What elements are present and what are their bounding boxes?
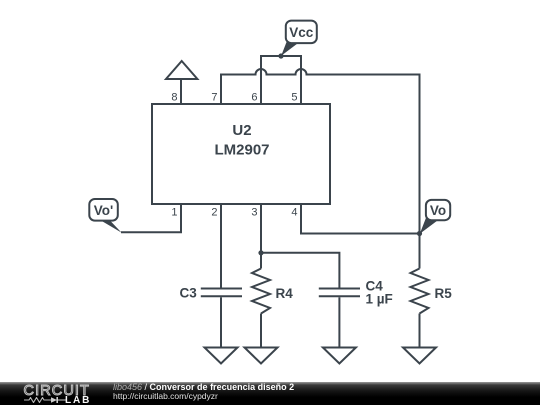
svg-text:R4: R4 — [276, 286, 294, 301]
wire R4 to ground — [260, 314, 262, 348]
CircuitLab logo word CIRCUIT — [24, 383, 91, 399]
footer url line — [113, 391, 218, 401]
node pin3/C4 junction dot — [258, 250, 263, 255]
ground (R4) — [245, 348, 278, 364]
wire pin 4 to Vo node — [301, 204, 420, 234]
wire C3 to ground — [220, 297, 222, 347]
svg-text:Vo': Vo' — [94, 203, 113, 218]
footer bar — [0, 382, 540, 405]
pin 8 stub — [180, 79, 182, 104]
node Vcc junction dot — [278, 53, 283, 58]
wire pin 1 to Vo' flag — [121, 204, 181, 232]
resistor R4 — [252, 269, 270, 314]
svg-text:C3: C3 — [180, 286, 198, 301]
flag Vo callout — [420, 200, 450, 234]
svg-text:1 µF: 1 µF — [366, 292, 393, 307]
svg-text:7: 7 — [211, 92, 217, 104]
power flag arrow on pin 8 — [166, 61, 197, 79]
flag Vo' callout — [89, 199, 121, 233]
footer title line — [113, 382, 294, 392]
svg-text:1: 1 — [171, 207, 177, 219]
resistor R5 — [411, 269, 429, 314]
CircuitLab logo squiggle (resistor + diode) — [24, 397, 67, 403]
wire bracket joining pins 6 and 5 (Vcc net) — [261, 56, 301, 104]
capacitor C3 — [201, 289, 242, 297]
wire Vo node to R5 — [419, 234, 421, 269]
wire node to C4 — [261, 253, 339, 288]
svg-text:U2: U2 — [232, 122, 251, 139]
wire pin 2 down to C3 — [220, 204, 222, 288]
op-amp U2 (LM2907 IC body) — [152, 104, 330, 204]
svg-text:Vcc: Vcc — [289, 25, 314, 40]
svg-text:R5: R5 — [435, 286, 453, 301]
wire C4 to ground — [338, 297, 340, 347]
svg-text:8: 8 — [171, 92, 177, 104]
capacitor C4 — [319, 289, 360, 297]
wire pin 7 to right side with hops over pin5/6 risers — [221, 69, 420, 234]
svg-text:6: 6 — [251, 92, 257, 104]
svg-text:5: 5 — [291, 92, 297, 104]
svg-text:2: 2 — [211, 207, 217, 219]
wire R5 to ground — [419, 314, 421, 348]
svg-text:3: 3 — [251, 207, 257, 219]
node Vo junction dot — [417, 231, 422, 236]
svg-text:4: 4 — [291, 207, 297, 219]
svg-text:LM2907: LM2907 — [214, 142, 269, 159]
ground (R5) — [403, 348, 436, 364]
ground (C4) — [323, 348, 356, 364]
flag Vcc callout — [281, 21, 317, 56]
svg-text:Vo: Vo — [430, 203, 446, 218]
wire pin 3 down to node — [260, 204, 262, 269]
ground (C3) — [205, 348, 238, 364]
